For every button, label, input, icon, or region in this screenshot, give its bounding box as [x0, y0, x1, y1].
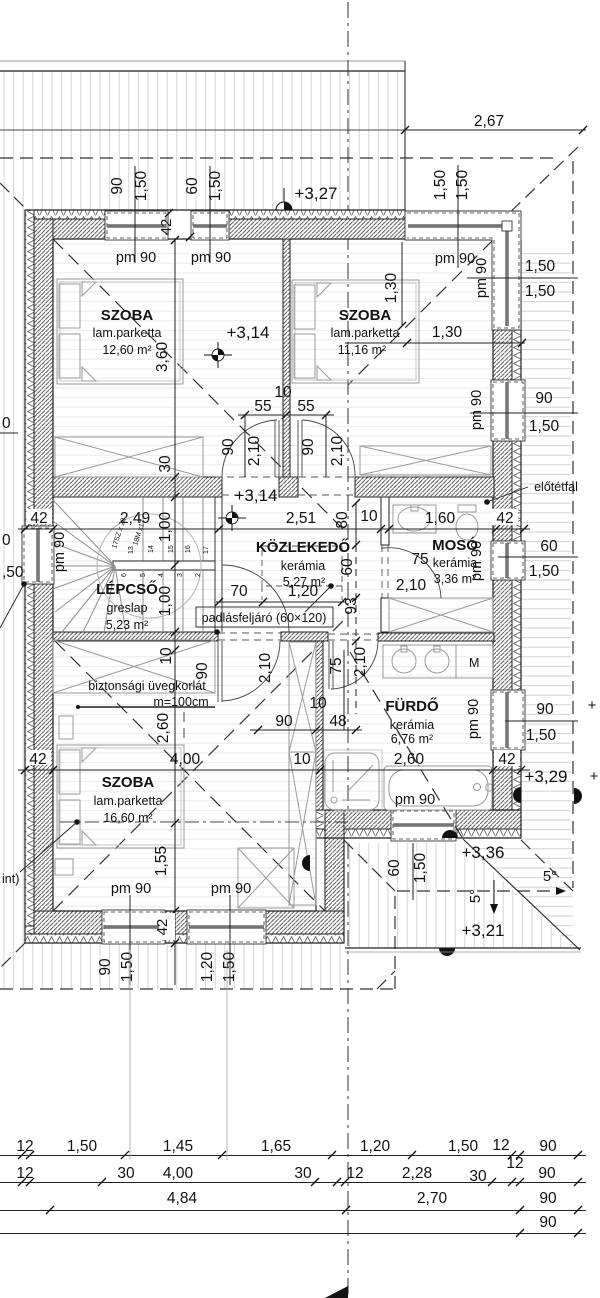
- svg-text:60: 60: [339, 558, 356, 576]
- svg-text:10: 10: [274, 384, 292, 401]
- svg-text:12: 12: [492, 1137, 509, 1154]
- svg-text:30: 30: [469, 1168, 487, 1185]
- svg-text:90: 90: [536, 701, 554, 718]
- svg-text:+3,21: +3,21: [461, 921, 504, 940]
- svg-text:SZOBA: SZOBA: [101, 307, 154, 324]
- svg-text:3,60: 3,60: [154, 342, 171, 373]
- svg-text:kerámia: kerámia: [390, 718, 435, 732]
- svg-text:90: 90: [535, 390, 553, 407]
- svg-text:M: M: [469, 656, 479, 670]
- svg-text:42: 42: [496, 510, 513, 527]
- svg-text:12,60 m²: 12,60 m²: [102, 343, 151, 357]
- svg-text:pm 90: pm 90: [116, 250, 156, 266]
- svg-text:90: 90: [97, 958, 114, 976]
- svg-text:6,76 m²: 6,76 m²: [391, 732, 433, 746]
- svg-text:pm 90: pm 90: [191, 250, 231, 266]
- svg-text:10: 10: [293, 751, 311, 768]
- svg-text:17: 17: [203, 546, 210, 554]
- svg-text:70: 70: [230, 583, 248, 600]
- svg-text:75: 75: [411, 551, 428, 568]
- svg-text:pm 90: pm 90: [211, 881, 251, 897]
- svg-text:90: 90: [109, 177, 126, 195]
- svg-text:2,10: 2,10: [329, 436, 346, 467]
- svg-text:+3,14: +3,14: [234, 486, 277, 505]
- svg-text:kerámia: kerámia: [281, 559, 326, 573]
- svg-text:12: 12: [16, 1138, 33, 1155]
- svg-text:15: 15: [168, 545, 175, 553]
- svg-text:2,60: 2,60: [155, 713, 172, 744]
- svg-text:12: 12: [346, 1165, 363, 1182]
- svg-text:1,00: 1,00: [157, 586, 174, 617]
- svg-text:+3,27: +3,27: [294, 184, 337, 203]
- svg-text:2,51: 2,51: [286, 510, 316, 527]
- svg-text:4: 4: [158, 573, 165, 577]
- svg-text:5: 5: [140, 573, 147, 577]
- svg-text:90: 90: [539, 1214, 557, 1231]
- svg-text:75: 75: [328, 657, 345, 674]
- svg-text:0: 0: [2, 532, 11, 549]
- svg-text:KÖZLEKEDŐ: KÖZLEKEDŐ: [256, 538, 351, 556]
- svg-text:1,50: 1,50: [67, 1138, 98, 1155]
- svg-text:biztonsági üvegkorlát: biztonsági üvegkorlát: [88, 679, 206, 693]
- svg-text:2,10: 2,10: [396, 577, 427, 594]
- svg-text:5°: 5°: [543, 868, 557, 885]
- svg-text:4,84: 4,84: [167, 1190, 198, 1207]
- svg-text:1,50: 1,50: [412, 853, 429, 884]
- svg-text:30: 30: [117, 1165, 135, 1182]
- svg-text:1,50: 1,50: [448, 1138, 479, 1155]
- svg-text:m=100cm: m=100cm: [153, 695, 208, 709]
- svg-text:90: 90: [194, 662, 211, 680]
- svg-text:11,16 m²: 11,16 m²: [338, 343, 386, 357]
- svg-text:16,60 m²: 16,60 m²: [103, 811, 152, 825]
- svg-text:+3,14: +3,14: [226, 323, 269, 342]
- svg-text:1,50: 1,50: [432, 170, 449, 201]
- svg-text:+: +: [590, 768, 599, 785]
- svg-text:42: 42: [498, 751, 515, 768]
- svg-text:90: 90: [539, 1138, 557, 1155]
- svg-text:90: 90: [539, 1190, 557, 1207]
- svg-text:1,50: 1,50: [221, 952, 238, 983]
- svg-text:2,10: 2,10: [246, 436, 263, 467]
- svg-text:pm 90: pm 90: [474, 258, 490, 298]
- svg-text:pm 90: pm 90: [395, 792, 435, 808]
- svg-text:MOSÓ: MOSÓ: [432, 536, 478, 554]
- svg-text:16: 16: [185, 545, 192, 553]
- svg-text:90: 90: [300, 438, 317, 456]
- svg-text:90: 90: [275, 713, 293, 730]
- svg-text:3: 3: [177, 573, 184, 577]
- svg-text:42: 42: [30, 510, 47, 527]
- svg-text:90: 90: [220, 438, 237, 456]
- svg-text:1,50: 1,50: [525, 258, 556, 275]
- svg-text:2,49: 2,49: [120, 510, 150, 527]
- svg-text:42: 42: [29, 751, 46, 768]
- svg-text:1,60: 1,60: [425, 510, 456, 527]
- svg-text:2,10: 2,10: [257, 653, 274, 684]
- svg-text:+3,36: +3,36: [461, 843, 504, 862]
- svg-text:4,00: 4,00: [170, 751, 201, 768]
- svg-text:10: 10: [309, 695, 327, 712]
- svg-text:1,50: 1,50: [454, 170, 471, 201]
- svg-text:42: 42: [158, 219, 175, 236]
- svg-text:2,60: 2,60: [394, 751, 425, 768]
- svg-text:+: +: [588, 697, 597, 714]
- svg-text:90: 90: [538, 1165, 556, 1182]
- svg-text:1,45: 1,45: [163, 1138, 193, 1155]
- svg-text:int): int): [2, 872, 19, 886]
- svg-text:1,50: 1,50: [529, 418, 560, 435]
- svg-text:pm 90: pm 90: [52, 532, 68, 572]
- svg-text:1,50: 1,50: [133, 171, 150, 202]
- svg-text:30: 30: [157, 455, 174, 473]
- svg-text:5°: 5°: [467, 889, 484, 903]
- svg-text:2,10: 2,10: [352, 647, 369, 678]
- svg-text:pm 90: pm 90: [466, 699, 482, 739]
- svg-text:1,50: 1,50: [526, 727, 557, 744]
- svg-text:SZOBA: SZOBA: [102, 774, 155, 791]
- svg-text:pm 90: pm 90: [469, 390, 485, 430]
- svg-text:6: 6: [121, 573, 128, 577]
- svg-text:60: 60: [386, 859, 403, 877]
- svg-text:+3,29: +3,29: [524, 767, 567, 786]
- svg-text:12: 12: [16, 1165, 33, 1182]
- svg-text:SZOBA: SZOBA: [339, 307, 392, 324]
- svg-text:2,67: 2,67: [474, 113, 504, 130]
- svg-text:12: 12: [506, 1155, 523, 1172]
- svg-text:lam.parketta: lam.parketta: [94, 794, 163, 808]
- svg-text:2: 2: [195, 573, 202, 577]
- svg-text:55: 55: [254, 398, 271, 415]
- svg-text:kerámia: kerámia: [433, 556, 478, 570]
- svg-text:13: 13: [128, 546, 135, 554]
- svg-text:pm 90: pm 90: [435, 251, 475, 267]
- svg-text:2,28: 2,28: [402, 1165, 432, 1182]
- svg-text:1,50: 1,50: [119, 952, 136, 983]
- svg-text:LÉPCSŐ: LÉPCSŐ: [96, 580, 158, 598]
- svg-text:FÜRDŐ: FÜRDŐ: [385, 697, 439, 715]
- svg-text:1,20: 1,20: [360, 1138, 391, 1155]
- svg-text:0: 0: [2, 415, 11, 432]
- svg-text:30: 30: [294, 1165, 312, 1182]
- svg-text:3,36 m²: 3,36 m²: [434, 572, 476, 586]
- svg-text:1,50: 1,50: [207, 171, 224, 202]
- svg-text:2,70: 2,70: [417, 1190, 448, 1207]
- svg-text:,50: ,50: [2, 564, 24, 581]
- svg-text:padlásfeljáró (60×120): padlásfeljáró (60×120): [202, 611, 327, 625]
- svg-text:pm 90: pm 90: [111, 881, 151, 897]
- svg-text:80: 80: [334, 511, 351, 529]
- svg-text:60: 60: [184, 177, 201, 195]
- svg-text:5,27 m²: 5,27 m²: [283, 575, 325, 589]
- svg-text:5,23 m²: 5,23 m²: [106, 618, 148, 632]
- svg-text:60: 60: [540, 538, 558, 555]
- svg-text:előtétfal: előtétfal: [534, 480, 578, 494]
- svg-text:42: 42: [154, 919, 171, 936]
- svg-text:1,50: 1,50: [529, 563, 560, 580]
- svg-text:1,50: 1,50: [525, 283, 556, 300]
- svg-text:14: 14: [148, 545, 155, 553]
- svg-text:lam.parketta: lam.parketta: [93, 326, 162, 340]
- svg-text:4,00: 4,00: [163, 1165, 194, 1182]
- svg-text:greslap: greslap: [107, 601, 148, 615]
- svg-text:1,65: 1,65: [261, 1138, 291, 1155]
- svg-text:55: 55: [297, 398, 314, 415]
- svg-text:lam.parketta: lam.parketta: [331, 326, 400, 340]
- svg-text:1,55: 1,55: [153, 846, 170, 876]
- svg-text:1,30: 1,30: [432, 324, 463, 341]
- svg-text:1,20: 1,20: [199, 952, 216, 983]
- svg-text:1,30: 1,30: [383, 273, 400, 304]
- svg-text:10: 10: [158, 647, 175, 665]
- svg-text:93: 93: [343, 597, 360, 614]
- svg-text:1,00: 1,00: [157, 512, 174, 543]
- svg-text:10: 10: [360, 508, 378, 525]
- svg-text:48: 48: [329, 713, 346, 730]
